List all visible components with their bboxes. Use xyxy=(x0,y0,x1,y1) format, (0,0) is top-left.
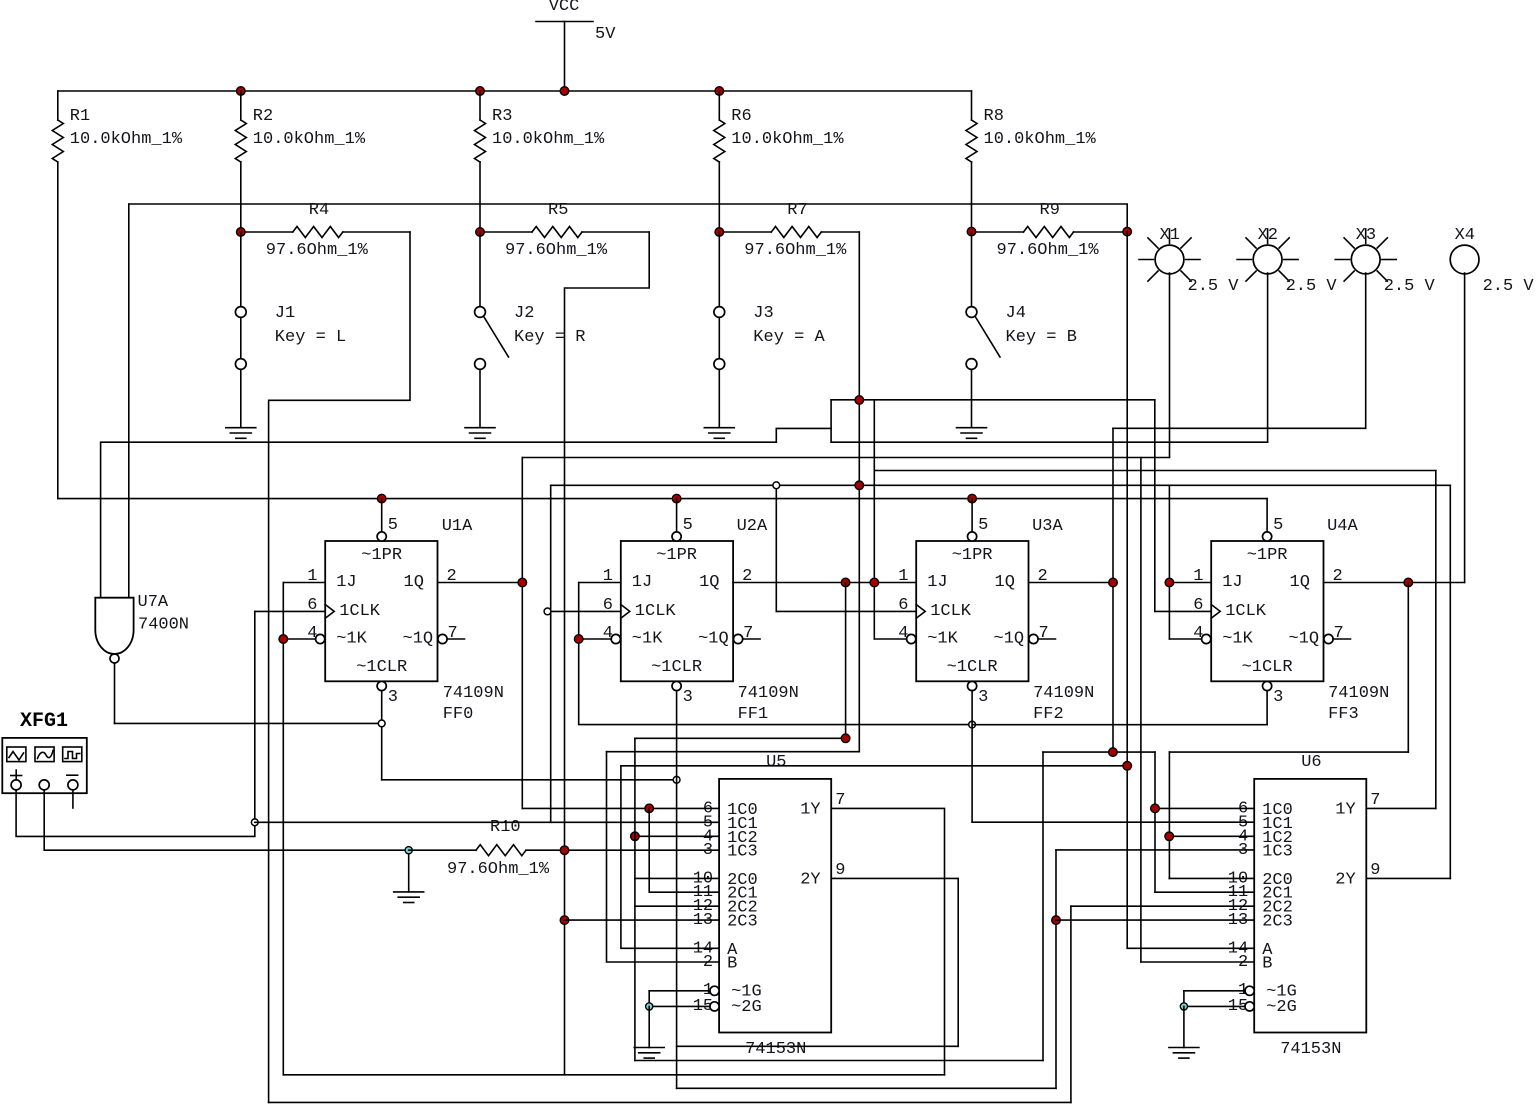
switch J2 Key = R xyxy=(479,232,481,307)
node Q3 tap xyxy=(1404,578,1413,587)
XFG1 plus terminal mark xyxy=(11,775,22,777)
wire U2A clock xyxy=(551,610,621,612)
svg-text:1CLK: 1CLK xyxy=(1225,602,1267,621)
wire U6 2C0 row xyxy=(1169,877,1254,879)
svg-text:2.5 V: 2.5 V xyxy=(1483,277,1535,296)
svg-text:9: 9 xyxy=(1370,861,1380,880)
node R9 left xyxy=(967,227,976,236)
wire U6-B feeder xyxy=(1140,458,1142,963)
svg-text:FF2: FF2 xyxy=(1033,705,1064,724)
svg-text:Key = R: Key = R xyxy=(514,328,585,347)
wire U5 2C3 row xyxy=(565,919,720,921)
node R7-y485 xyxy=(855,481,864,490)
wire R8 bottom xyxy=(971,162,973,232)
svg-text:7: 7 xyxy=(835,791,845,810)
U3A clock triangle xyxy=(916,605,925,619)
wire riser x874 to U3A J/K xyxy=(873,400,875,639)
node PR-U3A xyxy=(968,494,977,503)
svg-text:B: B xyxy=(1262,955,1272,974)
wire U3A clock xyxy=(776,610,916,612)
switch J1 Key = L xyxy=(240,232,242,307)
U1A pin 5 ~1PR xyxy=(381,499,383,532)
svg-text:2.5 V: 2.5 V xyxy=(1188,277,1240,296)
open node U1A CLR xyxy=(378,720,385,727)
svg-text:1J: 1J xyxy=(927,573,947,592)
wire U5 1C2 row xyxy=(635,835,719,837)
wire U3A ~1K feed xyxy=(874,638,906,640)
node U4A J tap xyxy=(1165,578,1174,587)
node Q1 riser join xyxy=(841,734,850,743)
wire net-A row y442 left part to NAND input A xyxy=(101,442,777,597)
wire U1A CLR link to U2A CLR column xyxy=(382,779,677,781)
svg-text:5V: 5V xyxy=(595,25,616,44)
wire Q3 riser xyxy=(1407,583,1409,753)
svg-text:97.6Ohm_1%: 97.6Ohm_1% xyxy=(744,241,847,260)
wire NAND output to U1A ~1CLR xyxy=(115,722,382,724)
multiplexer U6 74153N xyxy=(1254,779,1366,1033)
wire Q0 riser to U5 1C0 xyxy=(521,458,523,809)
wire R4 right drop to lower link xyxy=(269,232,410,1102)
svg-text:3: 3 xyxy=(1273,688,1283,707)
svg-text:~1Q: ~1Q xyxy=(1289,630,1320,649)
open node U3A CLR xyxy=(969,721,976,728)
wire U1A clock riser to XFG+ xyxy=(254,611,256,822)
wire U6 1C1 row from U3A CLR xyxy=(972,821,1254,823)
U2A pin 4 ~1K circle xyxy=(611,634,620,643)
node R9 right xyxy=(1123,227,1132,236)
svg-text:~1K: ~1K xyxy=(632,630,663,649)
wire net 1Y-U6 row y470 xyxy=(874,470,1436,472)
svg-text:1Q: 1Q xyxy=(404,573,424,592)
svg-text:10.0kOhm_1%: 10.0kOhm_1% xyxy=(731,130,844,149)
svg-text:~1PR: ~1PR xyxy=(952,546,993,565)
U2A pin 5 ~1PR xyxy=(676,499,678,532)
svg-text:X1: X1 xyxy=(1160,226,1180,245)
node bus-R6 xyxy=(715,87,724,96)
wire XFG1 - stub xyxy=(72,790,74,808)
wire row y400 R7/U4A-clock link xyxy=(831,399,1155,401)
wire R3 bottom xyxy=(479,162,481,232)
ground of U5 xyxy=(634,1047,664,1049)
wire U1A 1Q to Q0 riser xyxy=(438,582,523,584)
svg-text:R8: R8 xyxy=(984,107,1004,126)
svg-text:Key = A: Key = A xyxy=(753,328,825,347)
svg-text:R2: R2 xyxy=(253,107,273,126)
wire U6 2C2 feeder riser xyxy=(1070,906,1072,1102)
wire U5 1C1 row from XFG junction xyxy=(255,821,719,823)
svg-text:U7A: U7A xyxy=(138,593,169,612)
resistor R1 10.0kOhm xyxy=(57,91,59,120)
svg-text:1J: 1J xyxy=(336,573,356,592)
wire U6 2C3 row xyxy=(1056,919,1254,921)
svg-text:74109N: 74109N xyxy=(443,684,504,703)
node PR-U1A xyxy=(377,494,386,503)
wire U6 1C0/2C1 feeder x1155 xyxy=(1154,752,1156,892)
resistor R4 97.6Ohm xyxy=(241,231,293,233)
wire U6 1C2 row xyxy=(1169,835,1254,837)
wire U6 1C2/2C0 feeder x1169 xyxy=(1168,752,1170,878)
wire Q2 link row y752 xyxy=(1043,751,1155,753)
open node U3A clock tap xyxy=(773,482,780,489)
svg-text:2C3: 2C3 xyxy=(1262,913,1293,932)
XFG1 square wave icon xyxy=(65,752,80,759)
node Q2 join xyxy=(1109,748,1118,757)
wire ground drop at x408 xyxy=(408,850,410,892)
node bus-R3 xyxy=(476,87,485,96)
JK flip-flop U4A 74109N FF3 xyxy=(1211,541,1323,681)
wire Q1 feeder column x635 xyxy=(634,738,636,1060)
wire row y1088 U2A-CLR to U6 1C3 xyxy=(677,1087,1056,1089)
wire U6 1C0 row xyxy=(1155,807,1254,809)
open node XFG junction xyxy=(251,819,258,826)
wire U4A ~1K feed xyxy=(1169,638,1201,640)
svg-text:R9: R9 xyxy=(1040,201,1060,220)
svg-text:97.6Ohm_1%: 97.6Ohm_1% xyxy=(997,241,1100,260)
node R4 left xyxy=(237,228,246,237)
power VCC xyxy=(536,21,593,23)
wire U1A J/K column xyxy=(282,583,284,1075)
wire Q3 link row y752 xyxy=(1169,751,1408,753)
node bus-R2 xyxy=(237,87,246,96)
lamp X1 2.5 V xyxy=(1155,245,1184,274)
svg-text:74153N: 74153N xyxy=(1280,1040,1341,1059)
wire X3 drop xyxy=(1365,273,1367,428)
wire U4A 1J feed xyxy=(1169,582,1211,584)
svg-text:7: 7 xyxy=(1370,791,1380,810)
resistor R7 97.6Ohm xyxy=(719,231,771,233)
svg-text:~1Q: ~1Q xyxy=(403,630,434,649)
svg-text:10.0kOhm_1%: 10.0kOhm_1% xyxy=(70,130,183,149)
svg-text:1Q: 1Q xyxy=(995,573,1015,592)
U1A pin 7 ~1Q stub xyxy=(438,634,447,643)
node 2C3 tap x565 xyxy=(560,916,569,925)
wire U4A J/K feeder drop xyxy=(1168,485,1170,639)
ground near R10 xyxy=(394,891,424,893)
svg-text:R10: R10 xyxy=(490,818,521,837)
wire U6 2C1 row xyxy=(1155,891,1254,893)
XFG1 triangle wave icon xyxy=(9,752,24,761)
wire R2 bottom xyxy=(240,162,242,232)
wire row y1102 R4 column to U6 2C2 xyxy=(269,1101,1071,1103)
wire U4A 1Q to X4 xyxy=(1324,582,1465,584)
wire R7 column drop xyxy=(858,232,860,752)
U2A pin 7 ~1Q stub xyxy=(734,634,743,643)
wire X1 drop to Q0 row xyxy=(1169,273,1171,458)
JK flip-flop U1A 74109N FF0 xyxy=(325,541,437,681)
U3A pin 3 ~1CLR xyxy=(968,681,977,690)
svg-text:~1K: ~1K xyxy=(1222,630,1253,649)
resistor R2 10.0kOhm xyxy=(240,91,242,120)
svg-text:~1K: ~1K xyxy=(336,630,367,649)
node U6 1C2 xyxy=(1165,832,1174,841)
wire U2A 1Q row to U3A 1J xyxy=(733,582,916,584)
svg-text:97.6Ohm_1%: 97.6Ohm_1% xyxy=(505,241,608,260)
wire U6 1C3 row xyxy=(1056,849,1254,851)
wire net-B row y751 to R7 column xyxy=(607,751,860,753)
U4A pin 4 ~1K circle xyxy=(1202,634,1211,643)
wire Q0 row y457 xyxy=(522,457,1169,459)
switch J3 Key = A xyxy=(718,232,720,307)
svg-text:~1CLR: ~1CLR xyxy=(651,658,702,677)
svg-text:4: 4 xyxy=(603,624,613,643)
multiplexer U5 74153N xyxy=(719,779,831,1033)
U2A clock triangle xyxy=(621,605,630,619)
svg-text:9: 9 xyxy=(835,861,845,880)
wire Q1 riser xyxy=(845,583,847,739)
wire R5 right drop to column x565 xyxy=(565,232,650,1075)
wire net-A jog up xyxy=(776,428,831,442)
svg-text:~1K: ~1K xyxy=(927,630,958,649)
node U6 2C3 xyxy=(1052,916,1061,925)
resistor R6 10.0kOhm xyxy=(718,91,720,120)
svg-text:~1CLR: ~1CLR xyxy=(356,658,407,677)
wire R1 bottom to row line xyxy=(57,162,59,499)
node R10 right / 1C3 xyxy=(560,846,569,855)
svg-text:1C3: 1C3 xyxy=(727,842,758,861)
svg-text:74109N: 74109N xyxy=(1328,684,1389,703)
svg-text:97.6Ohm_1%: 97.6Ohm_1% xyxy=(266,241,369,260)
svg-text:B: B xyxy=(727,955,737,974)
wire U6 ground stem xyxy=(1183,1006,1185,1047)
svg-text:1C3: 1C3 xyxy=(1262,842,1293,861)
resistor R9 97.6Ohm xyxy=(972,231,1024,233)
node R7 left xyxy=(715,228,724,237)
ground of U6 xyxy=(1169,1047,1199,1049)
node R5 left xyxy=(476,228,485,237)
svg-text:~1PR: ~1PR xyxy=(1247,546,1288,565)
U4A pin 5 ~1PR xyxy=(1266,499,1268,532)
node A-net R9 join xyxy=(1123,762,1132,771)
wire U4A CLR link to U3A CLR node xyxy=(972,724,1267,726)
XFG1 sine wave icon xyxy=(38,751,54,759)
svg-text:U1A: U1A xyxy=(442,517,473,536)
wire U5 B feeder xyxy=(607,752,720,962)
svg-text:1Y: 1Y xyxy=(800,801,820,820)
svg-text:X4: X4 xyxy=(1455,226,1475,245)
node U2A ~1K xyxy=(579,638,612,640)
wire U3A 1Q xyxy=(1029,582,1114,584)
JK flip-flop U3A 74109N FF2 xyxy=(916,541,1028,681)
svg-text:1Q: 1Q xyxy=(699,573,719,592)
svg-text:2Y: 2Y xyxy=(1335,871,1355,890)
svg-text:XFG1: XFG1 xyxy=(20,710,68,733)
svg-text:1Q: 1Q xyxy=(1290,573,1310,592)
node Q2 tap xyxy=(1109,578,1118,587)
wire X3 column to mux link xyxy=(1112,428,1114,752)
svg-text:1CLK: 1CLK xyxy=(339,602,381,621)
svg-text:R1: R1 xyxy=(70,107,90,126)
svg-text:5: 5 xyxy=(683,516,693,535)
svg-text:U4A: U4A xyxy=(1327,517,1358,536)
wire R6 bottom xyxy=(718,162,720,232)
wire net-A row y765 to R9 column xyxy=(621,765,1127,767)
svg-text:2C3: 2C3 xyxy=(727,913,758,932)
wire U5 2C2 row xyxy=(635,905,719,907)
wire feedback row y1074 to U1A J/K xyxy=(283,1074,944,1076)
wire U3A pin3 stem xyxy=(971,691,973,823)
svg-text:74109N: 74109N xyxy=(1033,684,1094,703)
wire X3 row y428 xyxy=(1113,427,1366,429)
svg-text:5: 5 xyxy=(388,516,398,535)
svg-text:74153N: 74153N xyxy=(745,1040,806,1059)
wire U5 1C0-2C1 link xyxy=(649,808,719,892)
U1A clock triangle xyxy=(325,605,334,619)
svg-text:~1PR: ~1PR xyxy=(361,546,402,565)
svg-text:FF0: FF0 xyxy=(443,705,474,724)
U3A pin 5 ~1PR xyxy=(971,499,973,532)
svg-text:3: 3 xyxy=(703,841,713,860)
function generator XFG1 xyxy=(2,738,87,793)
resistor R10 97.6Ohm xyxy=(409,849,476,851)
node Q0 tap xyxy=(518,578,527,587)
resistor R3 10.0kOhm xyxy=(479,91,481,120)
U4A pin 7 ~1Q stub xyxy=(1324,634,1333,643)
svg-text:4: 4 xyxy=(1193,624,1203,643)
svg-text:2.5 V: 2.5 V xyxy=(1286,277,1338,296)
svg-text:10.0kOhm_1%: 10.0kOhm_1% xyxy=(492,130,605,149)
wire U4A clock drop xyxy=(1154,400,1156,612)
svg-text:5: 5 xyxy=(1273,516,1283,535)
svg-text:4: 4 xyxy=(898,624,908,643)
svg-text:R4: R4 xyxy=(309,201,329,220)
wire net 2Y-U6 row y485 xyxy=(551,484,1451,486)
svg-text:10.0kOhm_1%: 10.0kOhm_1% xyxy=(253,130,366,149)
wire U6 A row xyxy=(1127,947,1254,949)
wire row y1060 Q1-net to x1043 xyxy=(635,1060,1043,1062)
JK flip-flop U2A 74109N FF1 xyxy=(621,541,733,681)
wire NAND output stem xyxy=(114,663,116,723)
node U3A JK tap xyxy=(870,578,879,587)
wire U1A clock xyxy=(255,610,325,612)
wire row y1046 2Y to U2A CLR column xyxy=(677,1045,959,1047)
wire U5 ground stem xyxy=(648,1006,650,1047)
node U5 1C0/2C1 xyxy=(645,804,654,813)
wire U6 2Y riser xyxy=(1449,485,1451,878)
wire U4A clock xyxy=(1155,610,1211,612)
wire net-A row y442 right part to X2 xyxy=(831,441,1268,443)
wire U1A 1J feed xyxy=(283,582,325,584)
U4A pin 3 ~1CLR xyxy=(1263,681,1272,690)
wire U5 A feeder xyxy=(621,766,719,949)
open node U2A clock tap xyxy=(544,608,551,615)
svg-text:Key = B: Key = B xyxy=(1006,328,1077,347)
svg-text:J3: J3 xyxy=(753,304,773,323)
XFG1 terminals xyxy=(11,780,21,790)
svg-text:7: 7 xyxy=(1334,624,1344,643)
U6 ~1G ~2G pins xyxy=(1245,986,1254,995)
lamp X4 2.5 V xyxy=(1450,245,1479,274)
wire U5 1C2/2C0 net row y738 xyxy=(635,737,846,739)
wire U5 1Y output xyxy=(831,808,944,1074)
svg-text:7: 7 xyxy=(1039,624,1049,643)
svg-text:Key = L: Key = L xyxy=(275,328,346,347)
wire top supply bus xyxy=(58,90,972,92)
wire U3A clock riser xyxy=(775,489,777,612)
svg-text:7: 7 xyxy=(743,624,753,643)
svg-text:FF1: FF1 xyxy=(738,705,769,724)
svg-text:~2G: ~2G xyxy=(1266,998,1297,1017)
svg-text:7400N: 7400N xyxy=(138,616,189,635)
svg-text:R7: R7 xyxy=(787,201,807,220)
svg-text:X3: X3 xyxy=(1356,226,1376,245)
svg-text:1CLK: 1CLK xyxy=(635,602,677,621)
node R7-y400 xyxy=(855,396,864,405)
resistor R8 10.0kOhm xyxy=(971,91,973,120)
U3A pin 4 ~1K circle xyxy=(907,634,916,643)
svg-text:1J: 1J xyxy=(1222,573,1242,592)
wire X2 drop xyxy=(1267,273,1269,442)
wire U6 2C2 row xyxy=(1071,905,1254,907)
wire Q2 branch riser x1043 xyxy=(1042,752,1044,1060)
U3A pin 7 ~1Q stub xyxy=(1029,634,1038,643)
U2A pin 3 ~1CLR xyxy=(672,681,681,690)
wire U6 2Y output xyxy=(1366,877,1450,879)
svg-text:7: 7 xyxy=(448,624,458,643)
U4A clock triangle xyxy=(1211,605,1220,619)
svg-text:3: 3 xyxy=(388,688,398,707)
node bus-VCC xyxy=(560,87,569,96)
svg-text:2.5 V: 2.5 V xyxy=(1384,277,1436,296)
svg-text:U6: U6 xyxy=(1301,753,1321,772)
wire preset row y499 xyxy=(58,498,1267,500)
svg-text:~1Q: ~1Q xyxy=(698,630,729,649)
ground of J1 xyxy=(226,427,256,429)
svg-text:J1: J1 xyxy=(275,304,295,323)
svg-text:~1PR: ~1PR xyxy=(656,546,697,565)
wire R9 column drop to U6 A xyxy=(1126,232,1128,948)
wire U2A 1J feed xyxy=(579,582,621,584)
svg-text:2Y: 2Y xyxy=(800,871,820,890)
svg-text:1J: 1J xyxy=(632,573,652,592)
node U6 1C0 xyxy=(1151,804,1160,813)
svg-text:3: 3 xyxy=(683,688,693,707)
wire U5 1C1 feeder riser xyxy=(550,485,552,822)
svg-text:~1CLR: ~1CLR xyxy=(947,658,998,677)
XFG1 minus terminal mark xyxy=(67,774,78,776)
wire U2A pin3 stem to bottom xyxy=(676,691,678,1089)
svg-text:1CLK: 1CLK xyxy=(930,602,972,621)
svg-text:FF3: FF3 xyxy=(1328,705,1359,724)
node Q1 tap xyxy=(841,578,850,587)
svg-text:U3A: U3A xyxy=(1032,517,1063,536)
svg-text:U5: U5 xyxy=(766,753,786,772)
wire NAND input B from row204 xyxy=(128,204,130,598)
NAND gate U7A 7400N xyxy=(95,598,133,654)
wire U2A J/K riser xyxy=(579,583,972,725)
node PR-U2A xyxy=(672,494,681,503)
svg-text:~1CLR: ~1CLR xyxy=(1242,658,1293,677)
wire U5 2C0 row xyxy=(635,877,719,879)
U1A pin 4 ~1K circle xyxy=(316,634,325,643)
wire U5 1C0 row xyxy=(522,807,719,809)
svg-text:~1Q: ~1Q xyxy=(994,630,1025,649)
svg-text:4: 4 xyxy=(307,624,317,643)
lamp X3 2.5 V xyxy=(1351,245,1380,274)
svg-text:R5: R5 xyxy=(548,201,568,220)
U5 ~1G ~2G pins xyxy=(710,986,719,995)
svg-text:U2A: U2A xyxy=(737,517,768,536)
node U5 1C2 xyxy=(631,832,640,841)
wire long row from NAND-B column to R9 right end xyxy=(129,204,1127,232)
svg-text:10.0kOhm_1%: 10.0kOhm_1% xyxy=(984,130,1097,149)
svg-text:R6: R6 xyxy=(731,107,751,126)
switch J4 Key = B xyxy=(971,232,973,307)
wire U1A pin3 stem xyxy=(381,691,383,780)
ground of J4 xyxy=(957,427,987,429)
resistor R5 97.6Ohm xyxy=(480,231,532,233)
lamp X2 2.5 V xyxy=(1253,245,1282,274)
svg-text:1Y: 1Y xyxy=(1335,801,1355,820)
